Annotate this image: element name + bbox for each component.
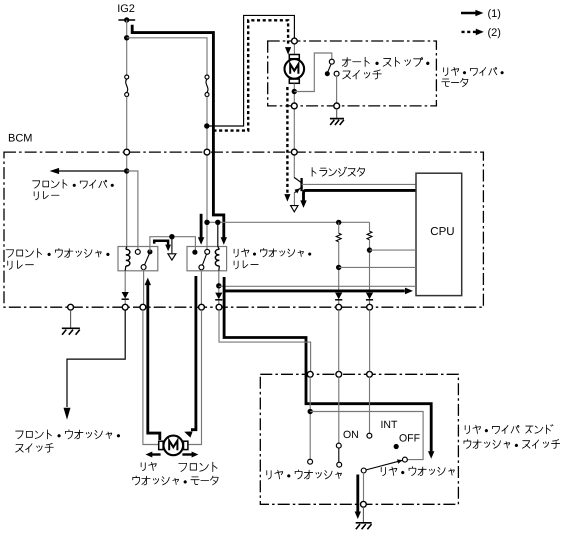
node R2 to CPU bbox=[367, 247, 372, 252]
transistor Q1 (PNP) bbox=[300, 178, 302, 191]
wire rear relay to washer motor right bbox=[186, 310, 201, 444]
node junction between relays bbox=[169, 234, 174, 239]
BCM enclosure (dash-dot box) bbox=[4, 152, 483, 307]
thick current path (1) lever to ground bbox=[356, 475, 359, 513]
front wiper relay output arrow bbox=[59, 170, 127, 172]
open continuation arrow below transistor emitter bbox=[291, 206, 298, 212]
rear washer relay coil bbox=[215, 249, 219, 266]
resistor R1 bbox=[338, 222, 340, 233]
node junction at branch bbox=[204, 123, 209, 128]
wire ON contact bbox=[338, 377, 340, 443]
auto-stop switch lever bbox=[328, 64, 332, 73]
rear wiper and washer switch box (dash-dot) bbox=[260, 374, 458, 504]
nodes switch box top edge bbox=[307, 371, 313, 377]
wire IG2 down to front wiper relay coil bbox=[126, 20, 128, 75]
fuse F1 bbox=[125, 75, 129, 79]
wire to auto-stop switch bbox=[294, 53, 332, 92]
wire D2 node to CPU bbox=[219, 285, 416, 287]
rear washer relay lever bbox=[202, 254, 206, 265]
wire front relay to washer motor left bbox=[143, 310, 161, 444]
thick current path (1) into rear washer relay switch bbox=[200, 214, 203, 239]
dashed current path (2) to rear wiper motor bbox=[213, 20, 288, 130]
front washer relay contacts bbox=[135, 249, 140, 254]
CPU box bbox=[416, 173, 462, 295]
label front direction bbox=[179, 462, 217, 472]
node junction on IG2 wire bbox=[124, 35, 129, 40]
node junction in switch bbox=[308, 409, 313, 414]
thick current path (1) marker at junction bbox=[154, 241, 168, 245]
wire to rear wiper motor (thin loop) bbox=[207, 15, 295, 126]
wire transistor base to CPU bbox=[302, 183, 416, 185]
rear washer relay box bbox=[187, 247, 227, 271]
dashed current path (2) motor to transistor bbox=[286, 87, 288, 194]
wire junction to lever contact bbox=[310, 412, 423, 460]
rear wiper motor enclosure (dash-dot box) bbox=[268, 41, 437, 106]
label front washer relay bbox=[6, 248, 109, 257]
label rear wiper and washer switch bbox=[465, 425, 553, 434]
node junction below motor bbox=[292, 89, 297, 94]
label front wiper relay bbox=[33, 180, 114, 189]
wire rear washer contact bbox=[309, 377, 311, 459]
rear wiper motor M bbox=[293, 43, 295, 57]
switch lever with arrow bbox=[364, 460, 403, 470]
thick current path (1) from IG2 to rear washer relay coil bbox=[132, 25, 224, 239]
label rear washer (left) bbox=[267, 470, 342, 479]
auto-stop switch contacts bbox=[329, 59, 334, 64]
wires BCM to switch box bbox=[338, 310, 340, 371]
svg-text:INT: INT bbox=[381, 419, 399, 431]
ground BCM bbox=[70, 310, 72, 328]
resistor R2 bbox=[369, 222, 371, 231]
wire junction to open continuation arrow bbox=[171, 237, 173, 254]
label auto-stop switch bbox=[342, 57, 429, 66]
wire to front washer switch bbox=[67, 310, 125, 407]
node switch box bottom bbox=[361, 501, 367, 507]
ground for auto-stop switch bbox=[336, 109, 338, 118]
wire rear washer relay switch to BCM edge bbox=[200, 270, 202, 305]
wire front washer relay switch to BCM edge bbox=[143, 269, 145, 304]
washer motor direction arrows bbox=[152, 453, 161, 455]
wire branch to rear circuit bbox=[127, 38, 207, 75]
label rear direction bbox=[141, 462, 156, 470]
node ground on BCM bottom edge bbox=[68, 304, 74, 310]
wire motor bottom to transistor collector bbox=[293, 84, 295, 179]
rear washer relay contacts bbox=[192, 250, 197, 255]
node junctions on rail bbox=[204, 220, 209, 225]
nodes on BCM top edge bbox=[124, 149, 130, 155]
transistor Q1 label bbox=[312, 167, 365, 176]
node on motor box bottom edge bbox=[334, 103, 340, 109]
OFF contact dot bbox=[394, 444, 399, 449]
label washer motor bbox=[133, 476, 218, 485]
label rear washer (right) bbox=[381, 467, 454, 476]
wire rear washer relay coil line to switch bbox=[219, 310, 311, 371]
svg-text:IG2: IG2 bbox=[117, 3, 135, 15]
lever end contact bbox=[402, 457, 407, 462]
svg-text:(2): (2) bbox=[488, 27, 501, 39]
front washer relay box bbox=[118, 247, 158, 271]
diode D4 bbox=[366, 293, 373, 300]
legend current-flow (2) dashed arrow bbox=[462, 31, 477, 33]
svg-text:CPU: CPU bbox=[430, 226, 454, 238]
wire INT contact bbox=[369, 377, 371, 433]
rear washer contact bbox=[308, 459, 313, 464]
node motor box bottom bbox=[291, 103, 297, 109]
wire front washer relay common to junction bbox=[150, 237, 196, 253]
wire pivot to ground bbox=[363, 473, 365, 502]
svg-text:ON: ON bbox=[343, 429, 359, 441]
svg-text:BCM: BCM bbox=[8, 133, 32, 145]
thick current path (1) CPU to transistor emitter bbox=[304, 190, 417, 201]
node motor box top bbox=[292, 38, 298, 44]
washer motor M bbox=[164, 436, 184, 456]
lever pivot contact bbox=[361, 468, 366, 473]
diode D3 bbox=[335, 293, 342, 300]
label front washer switch bbox=[16, 430, 120, 439]
svg-text:OFF: OFF bbox=[399, 433, 420, 445]
wire branch to front washer relay switch contact bbox=[127, 171, 138, 250]
svg-text:(1): (1) bbox=[488, 8, 501, 20]
thick current path (1) washer motor front drive bbox=[191, 276, 196, 430]
label rear wiper motor bbox=[444, 67, 504, 75]
node BCM bottom D1 bbox=[122, 304, 128, 310]
diode D1 under front washer relay coil bbox=[124, 271, 126, 292]
label rear washer relay bbox=[234, 248, 311, 256]
diode D2 under rear washer relay coil bbox=[218, 271, 220, 293]
thick current path (1) washer motor rear drive bbox=[148, 285, 160, 440]
node R1 to CPU bbox=[336, 265, 341, 270]
fuse F2 bbox=[205, 75, 209, 79]
front washer relay lever bbox=[144, 254, 149, 265]
legend current-flow (1) solid arrow bbox=[461, 12, 476, 15]
front washer relay coil bbox=[126, 249, 130, 266]
thick current path (1) rear washer relay to CPU bbox=[224, 277, 431, 452]
ground rear switch bbox=[362, 507, 364, 522]
wire rail to pull-up resistors bbox=[207, 221, 370, 223]
wire auto-stop switch to ground bbox=[336, 76, 338, 104]
node junction front wiper relay feed bbox=[124, 168, 129, 173]
